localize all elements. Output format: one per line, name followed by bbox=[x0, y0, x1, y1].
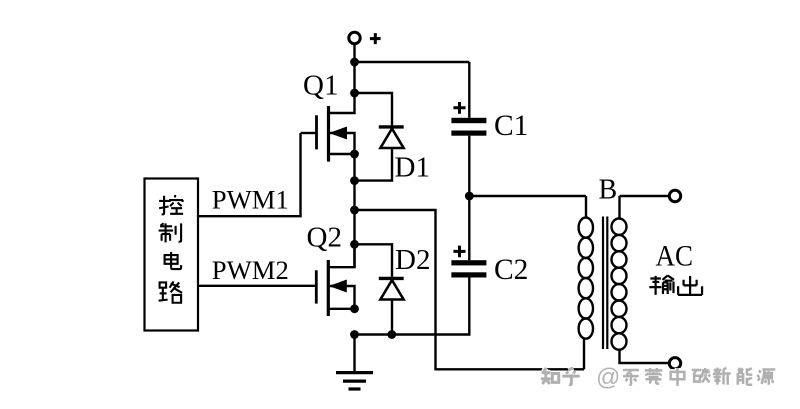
svg-text:C2: C2 bbox=[494, 254, 528, 286]
svg-text:Q1: Q1 bbox=[303, 70, 338, 102]
node AC output terminal top (open circle) bbox=[669, 190, 680, 201]
label D2 bbox=[395, 244, 430, 276]
label B (transformer) bbox=[599, 175, 618, 206]
label AC bbox=[656, 239, 694, 272]
junction dot Q1 drain node bbox=[350, 89, 359, 98]
node + supply terminal (open circle) bbox=[349, 32, 360, 43]
svg-text:PWM2: PWM2 bbox=[212, 255, 289, 285]
label AC 输出 (AC output) bbox=[649, 276, 702, 295]
watermark @ sign halo bbox=[596, 364, 620, 391]
label C1 bbox=[494, 110, 528, 142]
wire secondary top to AC terminal bbox=[620, 195, 669, 197]
junction dot bottom bus bbox=[350, 330, 359, 339]
svg-text:D2: D2 bbox=[395, 244, 430, 276]
watermark @ sign bbox=[596, 364, 620, 391]
label + (C2 polarity) bbox=[453, 246, 465, 258]
ground bbox=[336, 373, 373, 389]
wire PWM2 (control box to Q2 gate) bbox=[198, 285, 316, 287]
label D1 bbox=[395, 152, 430, 184]
wire top bus to C1 branch bbox=[355, 61, 470, 63]
svg-text:@: @ bbox=[596, 364, 620, 391]
control circuit box bbox=[145, 179, 199, 331]
wire capacitor midpoint to transformer primary top bbox=[469, 195, 586, 197]
label Q1 bbox=[303, 70, 338, 102]
label Q2 bbox=[307, 222, 342, 254]
junction dot mid node to transformer bbox=[350, 206, 359, 215]
junction dot capacitor midpoint bbox=[465, 192, 474, 201]
junction dot top bus bbox=[350, 58, 359, 67]
junction dot Q1 source node bbox=[350, 150, 359, 159]
junction dot D1 anode / mid node bbox=[350, 176, 359, 185]
watermark 知乎 @东莞中碳新能源 (white halo pass) bbox=[541, 368, 775, 386]
transformer B secondary winding bbox=[612, 196, 669, 363]
svg-text:AC: AC bbox=[656, 239, 694, 272]
svg-text:B: B bbox=[599, 175, 618, 206]
junction dot D2 anode bbox=[387, 330, 396, 339]
svg-text:Q2: Q2 bbox=[307, 222, 342, 254]
svg-text:PWM1: PWM1 bbox=[212, 184, 289, 214]
wire supply terminal down to node at y62 bbox=[353, 44, 355, 63]
junction dot Q2 drain node bbox=[350, 240, 359, 249]
diode D1 (freewheel across Q1) bbox=[355, 93, 404, 181]
transistor Q2 (N-MOSFET) bbox=[316, 244, 354, 316]
wire source node down to ground bbox=[353, 335, 355, 372]
transistor Q1 (N-MOSFET) bbox=[301, 93, 355, 162]
label PWM1 bbox=[212, 184, 289, 214]
watermark 知乎 @东莞中碳新能源 (gray pass) bbox=[541, 368, 775, 386]
transformer B core bbox=[603, 217, 607, 350]
svg-text:C1: C1 bbox=[494, 110, 528, 142]
label C2 bbox=[494, 254, 528, 286]
capacitor C2 (electrolytic, plates) bbox=[451, 196, 486, 278]
label + (C1 polarity) bbox=[453, 102, 465, 114]
node AC output terminal bottom (open circle) bbox=[669, 358, 680, 369]
diode D2 (freewheel across Q2) bbox=[355, 244, 404, 334]
svg-text:D1: D1 bbox=[395, 152, 430, 184]
wire bottom bus (source node to C2 bottom) bbox=[355, 277, 470, 334]
capacitor C1 (electrolytic, plates) bbox=[451, 62, 486, 196]
label + (plus sign at supply terminal) bbox=[370, 33, 381, 44]
wire mid node vertical segment bbox=[353, 154, 355, 267]
transformer B primary winding bbox=[579, 196, 593, 369]
wire mid node to transformer primary bottom bbox=[355, 210, 585, 369]
label 控制电路 (control circuit, vertical in box) bbox=[159, 195, 184, 303]
wire main bus y62 to Q1 drain node bbox=[353, 62, 355, 93]
wire PWM1 (control box to Q1 gate) bbox=[198, 133, 301, 216]
label PWM2 bbox=[212, 255, 289, 285]
junction dot Q2 source node bbox=[350, 304, 359, 313]
